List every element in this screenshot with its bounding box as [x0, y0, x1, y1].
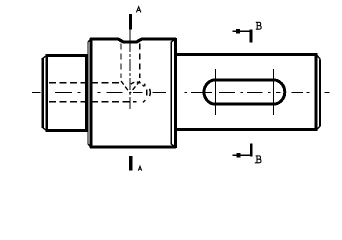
label B bottom — [255, 156, 261, 163]
flange left edge — [90, 38, 93, 148]
hidden line: axial hole end face — [146, 90, 148, 96]
flange bottom edge — [90, 145, 176, 148]
segment 1 chamfer edge line — [45, 54, 48, 132]
flange chamfer corner connectors — [88, 39, 175, 147]
segment 1 chamfer corner connectors — [43, 55, 47, 130]
label B top — [256, 22, 261, 29]
hidden line: axial hole drill cone tip — [149, 89, 152, 96]
shaft segment 3 (right cylinder) outline — [177, 55, 318, 130]
keyway slot on segment 3 — [204, 80, 285, 104]
shaft segment 1 (left small cylinder) outline — [45, 54, 86, 132]
hidden line: axial hole top — [49, 82, 121, 84]
segment 3 chamfer corner connectors — [317, 55, 320, 129]
flange left chamfer line — [87, 42, 89, 145]
section mark B bottom: line, arrow, bar — [232, 154, 251, 156]
label A bottom — [138, 166, 141, 171]
keyway right arc centermark — [272, 69, 274, 115]
section mark B top: line, arrow, bar — [232, 30, 251, 32]
keyway left arc centermark — [215, 69, 217, 115]
hidden line: drill cone left branch — [121, 81, 130, 93]
vertical hole centerline — [129, 30, 131, 41]
hidden line: drill cone right branch — [130, 81, 140, 93]
segment 3 end face line — [319, 59, 321, 126]
hidden line: hole intersection arc — [131, 82, 145, 86]
flange right chamfer line — [170, 42, 172, 145]
section mark A top bar — [129, 14, 132, 30]
flange (large middle cylinder) top edge with hole notch — [90, 39, 176, 42]
main horizontal centerline — [32, 92, 329, 94]
hidden line: axial hole bottom — [49, 101, 137, 103]
segment 1 end face line — [41, 58, 44, 128]
section mark A bottom bar — [129, 156, 132, 171]
segment 3 chamfer edge line — [314, 54, 317, 131]
hidden line: vertical hole right side — [139, 44, 141, 79]
label A top — [136, 7, 141, 13]
flange right edge — [174, 38, 177, 148]
hidden line: vertical hole left side — [120, 44, 122, 79]
hidden line: bottom intersection tick — [143, 84, 146, 103]
